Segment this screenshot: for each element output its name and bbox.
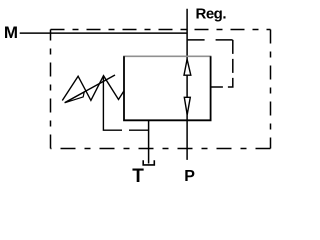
down flow arrow (hollow): [184, 97, 190, 115]
svg-text:Reg.: Reg.: [196, 6, 227, 23]
svg-text:T: T: [132, 166, 144, 187]
up flow arrow (hollow): [184, 59, 191, 75]
enclosure bottom edge: [51, 148, 271, 150]
adjustment arrowhead: [65, 92, 85, 103]
spring (zigzag): [62, 76, 124, 101]
drain line from spring chamber: [103, 76, 148, 130]
enclosure left edge: [50, 30, 52, 149]
enclosure right edge: [270, 30, 272, 149]
pilot line (dashed) down and into valve right side: [211, 40, 233, 87]
svg-text:P: P: [184, 168, 195, 185]
wire: Reg-P vertical main line: [186, 9, 188, 160]
svg-text:M: M: [4, 23, 18, 42]
pilot line (dashed) horizontal run from main line: [188, 39, 233, 41]
tank symbol: [143, 160, 154, 165]
valve body (top edge gray): [123, 55, 211, 57]
wire: T drain line: [148, 120, 150, 163]
wire: M gauge line: [20, 32, 187, 34]
adjustment arrow shaft: [65, 75, 115, 103]
enclosure (dash-dot subplate box) top edge: [51, 29, 271, 31]
